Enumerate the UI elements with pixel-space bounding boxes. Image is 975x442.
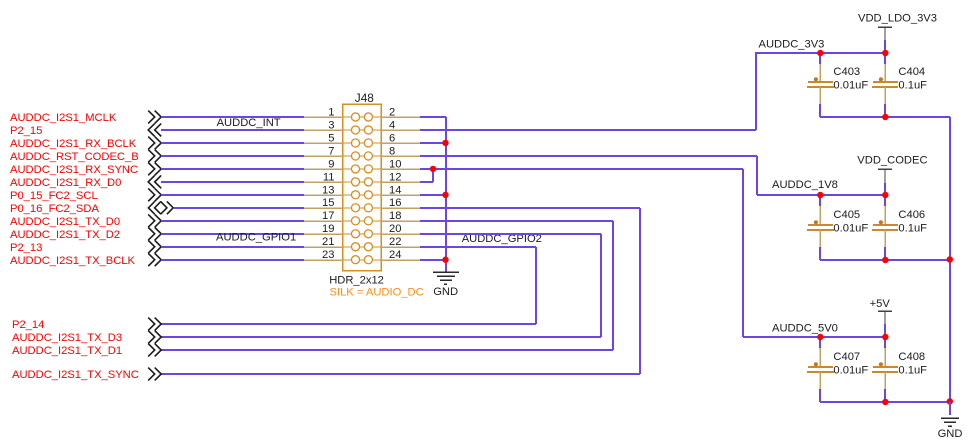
ground symbol GND (bottom right) (938, 418, 963, 440)
svg-text:0.1uF: 0.1uF (898, 80, 927, 92)
port P2_14 (12, 318, 161, 332)
ground symbol GND (connector) (433, 272, 459, 298)
svg-text:P0_16_FC2_SDA: P0_16_FC2_SDA (10, 203, 99, 215)
net label AUDDC_1V8 (772, 179, 838, 191)
pin 24 stub (381, 249, 420, 261)
net label AUDDC_GPIO2 (462, 233, 542, 245)
svg-text:GND: GND (433, 286, 458, 298)
net label AUDDC_INT (217, 117, 281, 129)
wire pin 15 (174, 207, 304, 209)
net label AUDDC_5V0 (772, 323, 838, 335)
svg-text:C404: C404 (898, 66, 925, 78)
port P0_16_FC2_SDA (pin 15) (10, 201, 173, 215)
pin 10 stub (381, 158, 420, 170)
svg-text:23: 23 (322, 249, 334, 261)
wire pin 21 (161, 246, 304, 248)
svg-text:14: 14 (389, 184, 401, 196)
pin 9 stub (304, 158, 343, 170)
wire pin 6 (420, 142, 446, 144)
wire pin 22 AUDDC_GPIO2 to P2_14 (161, 247, 536, 324)
wire pin 13 (161, 194, 304, 196)
svg-text:AUDDC_3V3: AUDDC_3V3 (759, 39, 825, 51)
svg-text:0.1uF: 0.1uF (898, 365, 927, 377)
svg-text:AUDDC_I2S1_TX_D0: AUDDC_I2S1_TX_D0 (10, 216, 120, 228)
svg-text:5: 5 (328, 132, 334, 144)
port AUDDC_I2S1_TX_D3 (12, 331, 161, 345)
junction bottom rail AUDDC_5V0 (882, 399, 888, 405)
svg-text:19: 19 (322, 223, 334, 235)
wire VDD_CODEC stem (884, 183, 886, 195)
wire pin 16 to AUDDC_I2S1_TX_SYNC (161, 208, 640, 374)
svg-text:C407: C407 (833, 351, 860, 363)
junction 5V0 bottom right (947, 398, 953, 404)
svg-text:AUDDC_I2S1_TX_D1: AUDDC_I2S1_TX_D1 (12, 345, 122, 357)
wire bottom rail under AUDDC_3V3 caps (820, 116, 950, 118)
pin 2 stub (381, 106, 420, 118)
wire pin 8 to AUDDC_1V8 (420, 156, 757, 195)
svg-text:18: 18 (389, 210, 401, 222)
svg-text:4: 4 (389, 119, 395, 131)
pin 3 stub (304, 119, 343, 131)
wire pin 11 (161, 181, 304, 183)
svg-text:6: 6 (389, 132, 395, 144)
port AUDDC_I2S1_TX_SYNC (12, 368, 161, 382)
svg-text:AUDDC_1V8: AUDDC_1V8 (772, 179, 838, 191)
junction AUDDC_1V8 right cap (882, 192, 888, 198)
net label AUDDC_GPIO1 (216, 232, 296, 244)
svg-text:7: 7 (328, 145, 334, 157)
wire pin 17 (161, 220, 304, 222)
junction AUDDC_1V8 left cap (817, 192, 823, 198)
connector J48 HDR_2x12 (343, 104, 382, 271)
svg-text:C403: C403 (833, 66, 860, 78)
capacitor C403 (807, 53, 868, 117)
svg-text:SILK = AUDIO_DC: SILK = AUDIO_DC (330, 286, 424, 298)
svg-text:AUDDC_I2S1_TX_D2: AUDDC_I2S1_TX_D2 (10, 229, 120, 241)
svg-text:15: 15 (322, 197, 334, 209)
svg-text:8: 8 (389, 145, 395, 157)
svg-text:AUDDC_INT: AUDDC_INT (217, 117, 281, 129)
pin 13 stub (304, 184, 343, 196)
junction AUDDC_3V3 right cap (882, 50, 888, 56)
label HDR_2x12 (329, 274, 384, 286)
svg-text:2: 2 (389, 106, 395, 118)
port AUDDC_I2S1_RX_BCLK (pin 5) (10, 137, 161, 151)
svg-text:17: 17 (322, 210, 334, 222)
svg-text:11: 11 (323, 171, 335, 183)
wire pin 2 to GND vertical (420, 116, 446, 118)
wire pin 3 (161, 129, 304, 131)
svg-text:AUDDC_I2S1_RX_D0: AUDDC_I2S1_RX_D0 (10, 177, 121, 189)
svg-text:C406: C406 (898, 209, 925, 221)
svg-text:VDD_CODEC: VDD_CODEC (857, 155, 927, 167)
svg-text:AUDDC_I2S1_TX_BCLK: AUDDC_I2S1_TX_BCLK (10, 255, 136, 267)
pin 18 stub (381, 210, 420, 222)
capacitor C406 (872, 195, 927, 260)
label SILK = AUDIO_DC (330, 286, 424, 298)
wire pin 9 (161, 168, 304, 170)
svg-text:AUDDC_I2S1_RX_BCLK: AUDDC_I2S1_RX_BCLK (10, 138, 137, 150)
svg-text:22: 22 (389, 236, 401, 248)
capacitor C408 (872, 337, 927, 402)
svg-text:AUDDC_GPIO1: AUDDC_GPIO1 (216, 232, 296, 244)
pin 4 stub (381, 119, 420, 131)
junction bottom rail AUDDC_1V8 (882, 257, 888, 263)
wire pin 4 to AUDDC_3V3 (420, 52, 756, 130)
port P0_15_FC2_SCL (pin 13) (10, 188, 161, 202)
junction bottom rail AUDDC_3V3 (882, 114, 888, 120)
svg-text:21: 21 (322, 236, 334, 248)
pin 8 stub (381, 145, 420, 157)
net label AUDDC_3V3 (759, 39, 825, 51)
port AUDDC_RST_CODEC_B (pin 7) (10, 150, 161, 164)
wire pin 14 (420, 194, 446, 196)
pin 15 stub (304, 197, 343, 209)
svg-text:P2_13: P2_13 (10, 242, 42, 254)
svg-text:P0_15_FC2_SCL: P0_15_FC2_SCL (10, 190, 98, 202)
port AUDDC_I2S1_TX_BCLK (pin 23) (10, 253, 161, 266)
wire pin 18 to AUDDC_I2S1_TX_D1 (161, 221, 613, 350)
wire pin 5 (161, 142, 304, 144)
wire pin 24 (420, 259, 446, 261)
port AUDDC_I2S1_TX_D1 (12, 344, 161, 358)
svg-text:AUDDC_I2S1_TX_SYNC: AUDDC_I2S1_TX_SYNC (12, 369, 139, 381)
pin 11 stub (304, 171, 343, 183)
junction AUDDC_3V3 left cap (817, 50, 823, 56)
junction pin 6 (442, 140, 448, 146)
capacitor C404 (872, 53, 927, 117)
svg-text:0.01uF: 0.01uF (833, 80, 868, 92)
pin 23 stub (304, 249, 343, 261)
port AUDDC_I2S1_TX_D2 (pin 19) (10, 227, 161, 241)
svg-text:+5V: +5V (870, 298, 891, 310)
svg-text:P2_14: P2_14 (12, 319, 44, 331)
wire bottom rail under AUDDC_1V8 caps (820, 259, 950, 261)
wire pin 12 tie to pin 10 (420, 169, 433, 182)
svg-text:C405: C405 (833, 209, 860, 221)
junction AUDDC_5V0 right cap (882, 334, 888, 340)
svg-text:24: 24 (389, 249, 401, 261)
wire rail AUDDC_3V3 (756, 52, 885, 54)
wire to bottom-right ground (949, 402, 951, 415)
wire bottom rail under AUDDC_5V0 caps (820, 401, 950, 403)
svg-text:12: 12 (389, 171, 401, 183)
svg-text:0.1uF: 0.1uF (898, 223, 927, 235)
port P2_13 (pin 21) (10, 240, 161, 254)
pin 20 stub (381, 223, 420, 235)
wire pin 23 (161, 259, 304, 261)
pin 6 stub (381, 132, 420, 144)
port AUDDC_I2S1_MCLK (pin 1) (10, 111, 161, 125)
pin 19 stub (304, 223, 343, 235)
svg-text:AUDDC_5V0: AUDDC_5V0 (772, 323, 838, 335)
pin 17 stub (304, 210, 343, 222)
power symbol VDD_CODEC (857, 155, 927, 184)
wire GND vertical (445, 117, 447, 272)
wire pin 10 to AUDDC_5V0 (420, 169, 743, 337)
junction pin 10/12 (430, 166, 436, 172)
junction 1V8 bottom right (947, 256, 953, 262)
svg-text:AUDDC_I2S1_TX_D3: AUDDC_I2S1_TX_D3 (12, 332, 122, 344)
pin 5 stub (304, 132, 343, 144)
svg-text:C408: C408 (898, 351, 925, 363)
svg-text:13: 13 (322, 184, 334, 196)
pin 12 stub (381, 171, 420, 183)
pin 21 stub (304, 236, 343, 248)
wire rail AUDDC_1V8 (757, 194, 885, 196)
svg-text:HDR_2x12: HDR_2x12 (329, 274, 384, 286)
wire VDD_LDO_3V3 stem (884, 40, 886, 53)
wire rail AUDDC_5V0 (743, 336, 885, 338)
wire +5V stem (884, 324, 886, 337)
pin 16 stub (381, 197, 420, 209)
wire right GND bus vertical (949, 117, 951, 402)
svg-text:AUDDC_I2S1_RX_SYNC: AUDDC_I2S1_RX_SYNC (10, 164, 138, 176)
svg-text:VDD_LDO_3V3: VDD_LDO_3V3 (858, 13, 937, 25)
junction AUDDC_5V0 left cap (817, 334, 823, 340)
pin 14 stub (381, 184, 420, 196)
wire pin 7 (161, 155, 304, 157)
svg-text:GND: GND (938, 428, 963, 440)
svg-text:J48: J48 (355, 91, 374, 105)
capacitor C407 (807, 337, 868, 402)
svg-text:0.01uF: 0.01uF (833, 365, 868, 377)
port AUDDC_I2S1_RX_SYNC (pin 9) (10, 163, 161, 177)
svg-text:3: 3 (328, 119, 334, 131)
pin 1 stub (304, 106, 343, 118)
designator J48 (355, 91, 374, 105)
port P2_15 (pin 3) (10, 124, 161, 138)
svg-text:P2_15: P2_15 (10, 125, 42, 137)
svg-text:10: 10 (389, 158, 401, 170)
svg-text:20: 20 (389, 223, 401, 235)
svg-text:AUDDC_RST_CODEC_B: AUDDC_RST_CODEC_B (10, 151, 139, 163)
junction pin 24 (442, 257, 448, 263)
wire pin 20 to AUDDC_I2S1_TX_D3 (161, 234, 601, 337)
power symbol VDD_LDO_3V3 (858, 13, 937, 41)
svg-text:1: 1 (328, 106, 334, 118)
capacitor C405 (807, 195, 868, 260)
port AUDDC_I2S1_TX_D0 (pin 17) (10, 214, 161, 228)
svg-text:16: 16 (389, 197, 401, 209)
svg-text:9: 9 (328, 158, 334, 170)
wire pin 1 (161, 116, 304, 118)
wire pin 19 (161, 233, 304, 235)
port AUDDC_I2S1_RX_D0 (pin 11) (10, 175, 161, 189)
junction pin 14 (442, 192, 448, 198)
svg-text:AUDDC_I2S1_MCLK: AUDDC_I2S1_MCLK (10, 112, 117, 124)
power symbol +5V (870, 298, 892, 324)
pin 7 stub (304, 145, 343, 157)
pin 22 stub (381, 236, 420, 248)
svg-text:0.01uF: 0.01uF (833, 223, 868, 235)
